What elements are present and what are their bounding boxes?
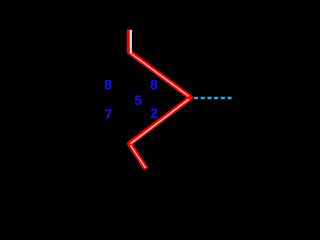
wire core highlight: lower diagonal <box>131 99 189 143</box>
svg-text:8: 8 <box>150 76 158 92</box>
wire: red zigzag trace (lightning path) <box>129 30 190 170</box>
svg-text:5: 5 <box>134 92 142 108</box>
dashed node line at apex <box>194 97 233 100</box>
wire core highlight: bottom hook <box>130 145 145 168</box>
wire core highlight: vertical segment <box>130 30 132 54</box>
svg-text:8: 8 <box>104 76 112 92</box>
wire core highlight: upper diagonal <box>131 54 188 97</box>
svg-text:2: 2 <box>150 105 158 121</box>
svg-text:7: 7 <box>104 106 112 122</box>
